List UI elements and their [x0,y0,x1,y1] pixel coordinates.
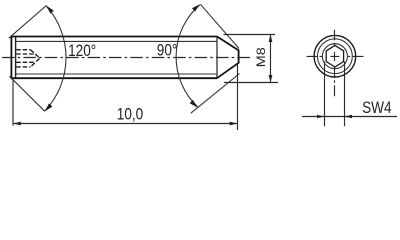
end view horizontal centerline [307,55,364,57]
thread minor line bottom [16,73,217,75]
hex socket drill cone hidden V [31,50,40,67]
centerline side view [2,57,252,59]
120deg arc arrowhead top [46,6,53,14]
120deg dimension side line upper [9,6,47,39]
M8 extension line top [224,34,276,36]
90deg dimension side line upper [200,4,239,48]
hex socket hexagon [326,45,343,67]
screw left end face edge [10,37,12,79]
cone start edge [216,37,218,79]
120deg dimension side line lower [10,76,45,111]
120deg arc arrowhead bottom [45,103,53,111]
hex socket hidden line outer top [16,49,30,51]
90deg dimension side line lower [191,74,240,114]
SW4 extension line left [324,62,326,127]
M8 extension line bottom [224,82,278,84]
10,0 extension line left [12,81,14,126]
SW4 arrowhead left (pointing right) [317,115,325,119]
end view socket bore circle [322,44,347,69]
end view thread minor circle [318,39,353,74]
svg-text:M8: M8 [254,47,268,67]
thread minor line top [16,40,217,42]
90deg arc arrowhead top [192,4,200,11]
M8 dimension line [270,35,272,83]
cone point outline with tip flat [217,37,239,79]
end view outer circle (major dia) [314,35,356,77]
screw bottom edge (major dia) [11,77,217,79]
svg-text:10,0: 10,0 [117,105,143,124]
M8 arrowhead bottom [269,75,273,83]
90deg dimension arc [176,5,200,107]
SW4 arrowhead right (pointing left) [345,115,353,119]
hex socket hidden line inner bottom [16,61,35,63]
SW4 dimension line [302,116,397,118]
svg-text:120°: 120° [68,42,96,61]
SW4 extension line right [344,62,346,127]
10,0 extension line right [237,64,239,130]
svg-text:90°: 90° [157,41,178,60]
10,0 dimension line [13,123,238,125]
screw top edge (major dia) [11,36,217,38]
hex socket hidden line outer bottom [16,66,30,68]
svg-text:SW4: SW4 [362,99,392,118]
end view vertical centerline [334,30,336,97]
120deg dimension arc [45,6,66,111]
hex socket hidden line inner top [16,53,35,55]
10,0 arrowhead left [13,122,20,126]
M8 arrowhead top [269,35,273,43]
10,0 arrowhead right [230,122,238,126]
90deg arc arrowhead bottom [190,100,198,108]
chamfer edge left face [15,37,17,78]
